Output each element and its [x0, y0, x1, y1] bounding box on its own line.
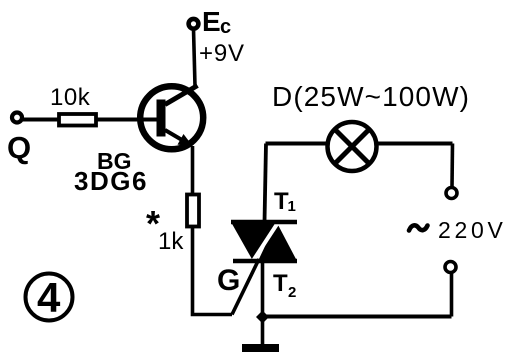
- terminal lower 220V: [445, 262, 456, 273]
- svg-text:Q: Q: [7, 130, 31, 165]
- svg-text:4: 4: [37, 274, 61, 321]
- svg-text:D(25W~100W): D(25W~100W): [272, 81, 470, 112]
- terminal upper 220V: [446, 188, 457, 199]
- resistor R1 10k: [59, 114, 96, 126]
- svg-text:220V: 220V: [438, 217, 507, 243]
- transistor base bar: [157, 100, 166, 137]
- wire right lower vertical: [450, 273, 454, 317]
- wire R2 to gate corner: [193, 226, 233, 315]
- wire top left segment: [266, 142, 329, 146]
- resistor R2 1k: [187, 195, 199, 227]
- wire right upper vertical: [450, 144, 454, 188]
- wire loop left vertical: [265, 144, 267, 223]
- transistor Q1 circle: [140, 86, 203, 149]
- svg-text:3DG6: 3DG6: [74, 166, 148, 196]
- wire triac T2 down: [261, 261, 265, 345]
- triac lower triangle: [258, 222, 297, 261]
- label ~220V: [409, 225, 428, 230]
- triac upper triangle: [231, 222, 276, 261]
- svg-text:G: G: [217, 264, 240, 297]
- terminal Ec: [189, 19, 199, 29]
- wire bottom: [263, 315, 452, 319]
- lamp D: [328, 122, 377, 171]
- terminal Q: [12, 113, 22, 123]
- svg-text:10k: 10k: [50, 84, 91, 111]
- svg-text:2: 2: [288, 284, 296, 301]
- figure number 4: [26, 274, 73, 321]
- svg-text:1: 1: [288, 198, 296, 215]
- junction node: [256, 311, 269, 324]
- svg-text:c: c: [220, 16, 231, 38]
- ground: [242, 344, 279, 352]
- svg-text:T: T: [273, 270, 288, 297]
- svg-text:E: E: [202, 6, 221, 37]
- triac bottom bar T2: [233, 259, 297, 264]
- transistor collector lead: [165, 86, 198, 105]
- wire top right segment: [376, 142, 453, 146]
- triac top bar T1: [231, 220, 297, 225]
- svg-text:+9V: +9V: [199, 40, 245, 67]
- svg-text:1k: 1k: [158, 228, 184, 255]
- wire gate diagonal: [232, 259, 259, 315]
- gate white slash: [249, 218, 281, 267]
- wire Ec to collector: [194, 29, 196, 86]
- transistor emitter lead: [165, 130, 188, 144]
- wire base lead: [23, 118, 160, 122]
- transistor emitter arrow: [178, 134, 194, 147]
- wire emitter to R2: [191, 146, 195, 196]
